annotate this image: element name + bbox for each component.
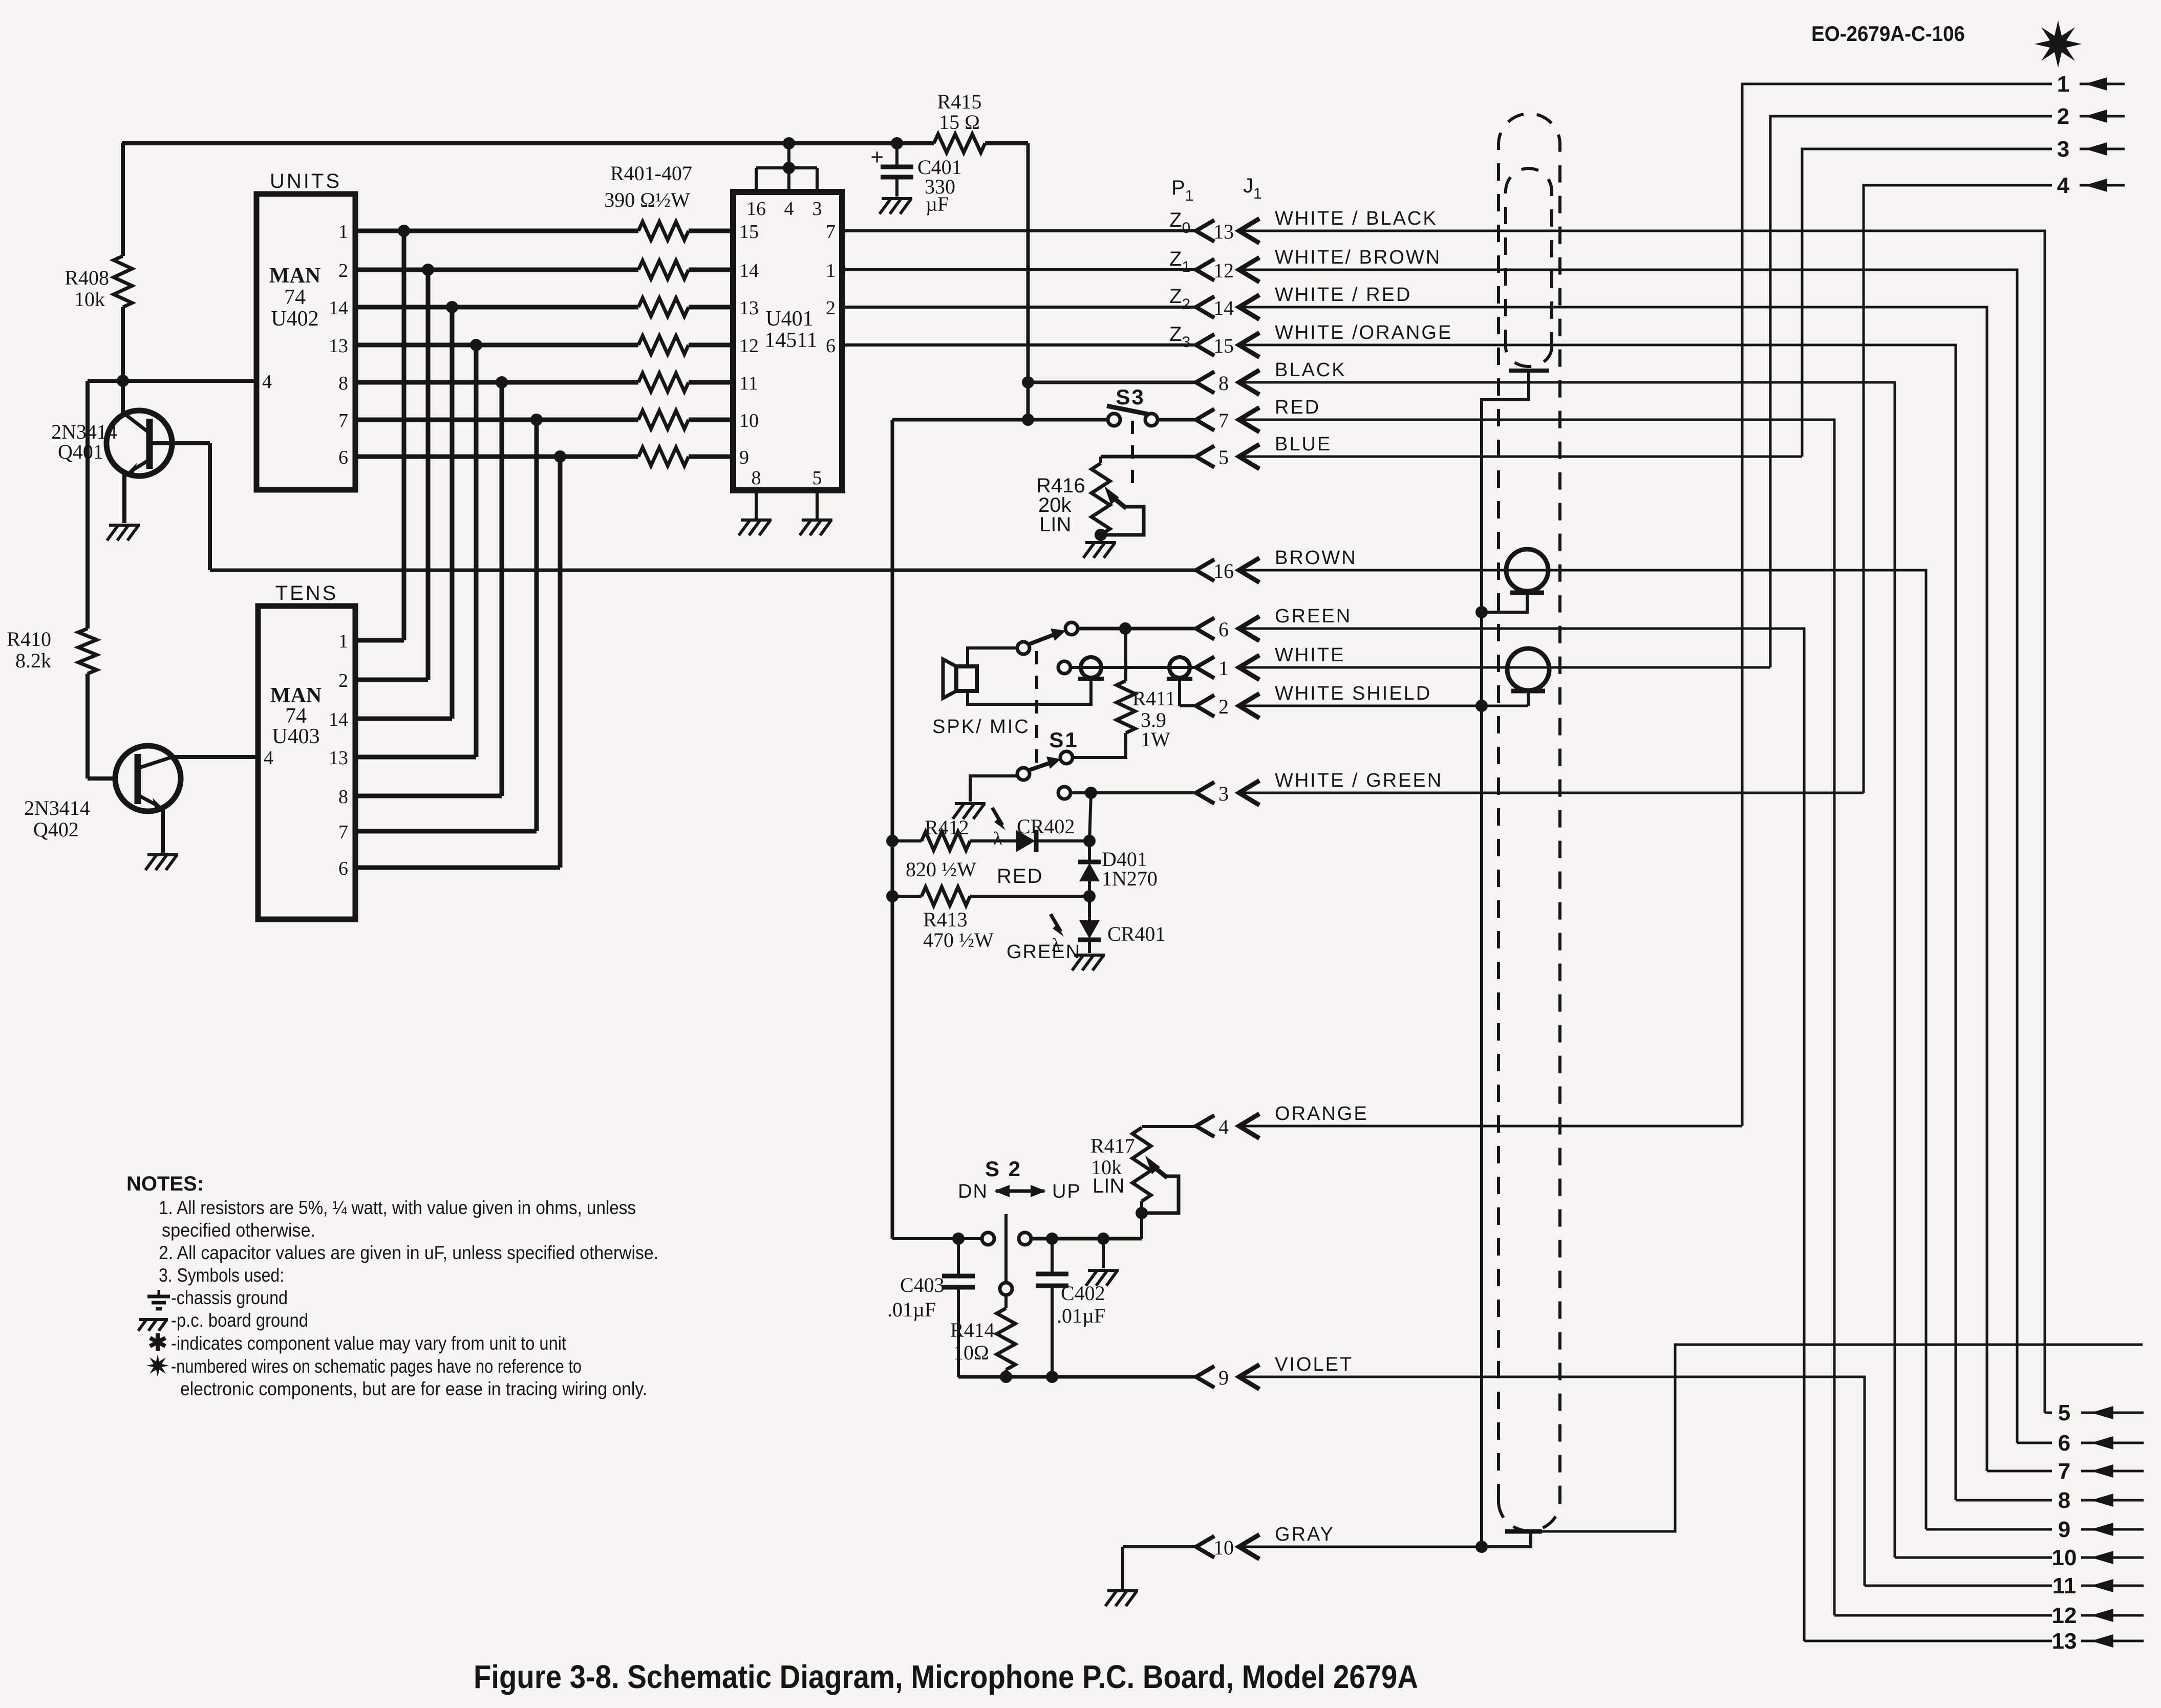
wire segment rows a-g UNITS to U401 bbox=[355, 229, 638, 233]
svg-text:14: 14 bbox=[739, 260, 759, 282]
resistor R404 bbox=[638, 336, 689, 354]
svg-text:5: 5 bbox=[1218, 446, 1229, 469]
connector ring WHITE right bbox=[1169, 657, 1190, 678]
node R417 wiper-bottom tie bbox=[1136, 1207, 1148, 1219]
node stair junctions bbox=[398, 225, 410, 237]
resistor R401 bbox=[638, 222, 689, 240]
svg-text:2. All capacitor values are gi: 2. All capacitor values are given in uF,… bbox=[159, 1242, 658, 1263]
svg-text:WHITE / GREEN: WHITE / GREEN bbox=[1275, 770, 1443, 791]
wire cable end lead to right edge bbox=[1542, 1345, 2143, 1531]
ground GRAY P-side bbox=[1107, 1589, 1138, 1592]
svg-text:WHITE/ BROWN: WHITE/ BROWN bbox=[1275, 247, 1441, 268]
wire S1 lower left to ground bbox=[970, 776, 1018, 802]
svg-text:Q402: Q402 bbox=[33, 818, 79, 841]
svg-text:2: 2 bbox=[338, 260, 348, 282]
IC U401 14511 bbox=[733, 192, 842, 490]
svg-text:R401-407: R401-407 bbox=[610, 162, 692, 185]
wire WHITE SHIELD row right bbox=[1239, 705, 1528, 707]
resistor R414 10 ohm bbox=[997, 1308, 1015, 1370]
svg-text:15: 15 bbox=[1213, 334, 1234, 357]
wire U401 top supply bracket bbox=[755, 168, 758, 192]
node J1 pin 13 (WHITE / BLACK) bbox=[1196, 220, 1214, 242]
node J1 pin 14 (WHITE / RED) bbox=[1196, 296, 1214, 318]
svg-text:Q401: Q401 bbox=[58, 440, 103, 463]
svg-text:820 ½W: 820 ½W bbox=[906, 858, 976, 881]
svg-text:9: 9 bbox=[1218, 1366, 1229, 1389]
svg-text:1: 1 bbox=[338, 631, 348, 652]
wire harness 13 bottom row bbox=[1804, 1640, 2052, 1642]
node J1 pin 5 (BLUE) bbox=[1196, 446, 1214, 467]
svg-text:3. Symbols used:: 3. Symbols used: bbox=[159, 1265, 284, 1286]
svg-text:C402: C402 bbox=[1061, 1282, 1105, 1305]
resistor R415 bbox=[934, 134, 985, 153]
svg-text:13: 13 bbox=[2052, 1629, 2077, 1654]
svg-text:8.2k: 8.2k bbox=[15, 649, 51, 672]
wire harness 2 (to WHITE) bbox=[1770, 116, 2052, 667]
resistor R405 bbox=[638, 373, 689, 392]
svg-text:13: 13 bbox=[329, 335, 348, 357]
svg-text:6: 6 bbox=[1218, 618, 1229, 641]
svg-text:.01µF: .01µF bbox=[887, 1298, 936, 1321]
resistor R403 bbox=[638, 298, 689, 316]
svg-text:LIN: LIN bbox=[1093, 1175, 1124, 1197]
svg-text:15 Ω: 15 Ω bbox=[939, 111, 980, 134]
node R412 left junction bbox=[886, 835, 898, 847]
svg-text:4: 4 bbox=[2057, 173, 2070, 198]
svg-text:12: 12 bbox=[739, 335, 759, 357]
svg-text:390 Ω½W: 390 Ω½W bbox=[604, 188, 690, 211]
wire harness 9 bottom row bbox=[1926, 1528, 2052, 1531]
svg-text:14: 14 bbox=[329, 297, 348, 319]
node shield / ring BROWN tail bbox=[1475, 606, 1488, 618]
svg-text:VIOLET: VIOLET bbox=[1275, 1354, 1353, 1375]
svg-text:4: 4 bbox=[1218, 1115, 1229, 1138]
svg-text:ORANGE: ORANGE bbox=[1275, 1103, 1368, 1125]
wire RED row right to harness 12 bbox=[1239, 420, 1834, 1615]
svg-text:4: 4 bbox=[784, 198, 794, 220]
svg-text:11: 11 bbox=[739, 373, 758, 394]
node J1 pin 3 (WHITE / GREEN) bbox=[1196, 782, 1214, 804]
svg-text:10k: 10k bbox=[74, 288, 105, 311]
svg-text:15: 15 bbox=[739, 221, 759, 243]
svg-text:U402: U402 bbox=[271, 307, 318, 331]
svg-text:10: 10 bbox=[1213, 1536, 1234, 1559]
resistor R413 470 1/2W bbox=[922, 887, 970, 905]
node J1 pin 10 (GRAY) bbox=[1196, 1536, 1214, 1558]
node rail-RED junction bbox=[1022, 414, 1034, 426]
svg-text:DN: DN bbox=[958, 1181, 988, 1202]
node shield / GRAY row bbox=[1475, 1541, 1488, 1553]
svg-text:-p.c. board ground: -p.c. board ground bbox=[171, 1310, 308, 1331]
node J1 pin 1 (WHITE) bbox=[1196, 657, 1214, 678]
svg-text:-numbered wires on schematic p: -numbered wires on schematic pages have … bbox=[171, 1356, 582, 1377]
wire GRAY to cable end bbox=[1483, 1531, 1531, 1547]
wire speaker top to S1 bbox=[968, 648, 1017, 666]
node R414 bottom bbox=[1000, 1371, 1012, 1383]
node R416 wiper-bottom tie bbox=[1095, 529, 1107, 541]
svg-text:specified otherwise.: specified otherwise. bbox=[162, 1220, 315, 1241]
node CR402/D401 junction bbox=[1083, 835, 1096, 847]
wire BROWN row left bbox=[210, 569, 1196, 572]
svg-text:3: 3 bbox=[1218, 782, 1229, 805]
node shield / WHITE SHIELD row bbox=[1475, 700, 1488, 712]
chassis ground symbol (note) bbox=[147, 1295, 170, 1299]
wire RED row feed (S3 branch down-left) bbox=[891, 420, 894, 1239]
node J1 pin 12 (WHITE/ BROWN) bbox=[1196, 259, 1214, 280]
wire BLACK row right to harness 10 bbox=[1239, 382, 1895, 1558]
wire WHITE SHIELD row left bbox=[1180, 704, 1196, 707]
svg-text:WHITE: WHITE bbox=[1275, 644, 1345, 666]
svg-text:R414: R414 bbox=[950, 1318, 995, 1342]
svg-text:S 2: S 2 bbox=[985, 1157, 1022, 1181]
node bracket junction bbox=[783, 162, 795, 174]
node C403 top bbox=[952, 1233, 965, 1245]
ground Q401 emitter bbox=[109, 524, 140, 527]
resistor R410 bbox=[78, 629, 97, 674]
wire harness 12 bottom row bbox=[1834, 1614, 2052, 1617]
svg-text:RED: RED bbox=[1275, 397, 1320, 418]
wire Z1 row right to harness 6 bbox=[1239, 270, 2017, 1443]
svg-text:TENS: TENS bbox=[275, 582, 338, 604]
svg-text:R410: R410 bbox=[7, 628, 51, 651]
svg-text:R408: R408 bbox=[65, 266, 109, 289]
wire BLACK row left bbox=[1028, 381, 1196, 384]
svg-text:11: 11 bbox=[2052, 1573, 2077, 1598]
svg-text:8: 8 bbox=[752, 467, 761, 489]
svg-text:9: 9 bbox=[2058, 1517, 2070, 1542]
svg-text:1: 1 bbox=[826, 260, 836, 282]
svg-text:electronic components, but are: electronic components, but are for ease … bbox=[180, 1378, 647, 1399]
connector ring WHITE in-cable bbox=[1507, 648, 1549, 690]
wire Q402 collector to TENS pin4 bbox=[172, 755, 258, 759]
node S2 ground junction bbox=[1097, 1233, 1109, 1245]
node rail-BLACK junction bbox=[1022, 376, 1034, 388]
svg-text:-chassis ground: -chassis ground bbox=[171, 1287, 288, 1308]
svg-text:U401: U401 bbox=[765, 307, 813, 331]
cable jacket outer dashed capsule bbox=[1499, 114, 1560, 1531]
switch S1 upper pole bbox=[1017, 642, 1030, 654]
wire TENS stair segments bbox=[355, 638, 404, 643]
svg-text:6: 6 bbox=[826, 335, 836, 357]
wire U401 pin5 ground stub bbox=[816, 490, 819, 519]
node J1 pin 4 (ORANGE) bbox=[1196, 1115, 1214, 1137]
wire WHITE/GREEN drop to LED chain bbox=[1089, 793, 1091, 841]
svg-text:SPK/ MIC: SPK/ MIC bbox=[932, 716, 1030, 738]
svg-text:12: 12 bbox=[2052, 1603, 2077, 1628]
wire BLUE row left (R416 top) bbox=[1101, 455, 1196, 459]
svg-text:1: 1 bbox=[1218, 657, 1229, 680]
resistor R407 bbox=[638, 447, 689, 466]
svg-text:BLUE: BLUE bbox=[1275, 434, 1332, 455]
svg-text:10: 10 bbox=[739, 410, 759, 431]
wire WHITE row right to harness 2 bbox=[1239, 666, 1770, 669]
svg-text:16: 16 bbox=[746, 198, 766, 220]
node J1 pin 15 (WHITE /ORANGE) bbox=[1196, 334, 1214, 356]
wire UNITS pin4 row bbox=[88, 379, 256, 383]
svg-text:7: 7 bbox=[338, 410, 348, 431]
LED CR402 (RED) bbox=[1016, 830, 1035, 852]
svg-text:10Ω: 10Ω bbox=[953, 1341, 989, 1364]
svg-text:S1: S1 bbox=[1049, 728, 1078, 752]
svg-text:.01µF: .01µF bbox=[1057, 1304, 1105, 1327]
node R413 left junction bbox=[886, 890, 898, 902]
svg-text:GREEN: GREEN bbox=[1275, 606, 1352, 627]
svg-text:4: 4 bbox=[262, 371, 272, 393]
svg-text:16: 16 bbox=[1213, 559, 1234, 582]
svg-text:R412: R412 bbox=[925, 816, 969, 839]
ground Q402 emitter bbox=[147, 853, 178, 856]
wire RED row segment through S3 bbox=[892, 418, 1108, 422]
svg-text:S3: S3 bbox=[1116, 385, 1145, 409]
resistor R412 820 1/2W bbox=[922, 832, 970, 850]
resistor R406 bbox=[638, 410, 689, 429]
svg-text:5: 5 bbox=[2058, 1400, 2070, 1425]
wire left drop to R410 bbox=[85, 381, 90, 629]
wire harness 5 bottom row bbox=[2045, 1412, 2052, 1414]
svg-text:R411: R411 bbox=[1132, 687, 1175, 710]
wire Z0 row right to harness 5 bbox=[1239, 231, 2045, 1413]
svg-text:4: 4 bbox=[264, 747, 273, 769]
svg-text:7: 7 bbox=[826, 221, 836, 243]
capacitor C403 .01uF bbox=[957, 1239, 960, 1275]
svg-text:13: 13 bbox=[739, 297, 759, 319]
svg-text:14: 14 bbox=[329, 709, 348, 730]
svg-text:WHITE / BLACK: WHITE / BLACK bbox=[1275, 208, 1438, 229]
ground U401 pin5 bbox=[802, 518, 832, 522]
connector ring BROWN in-cable bbox=[1506, 549, 1548, 591]
node C402 bottom bbox=[1046, 1371, 1058, 1383]
capacitor C402 .01uF bbox=[1051, 1239, 1054, 1273]
LED CR401 (GREEN) bbox=[1088, 896, 1091, 920]
svg-text:2: 2 bbox=[338, 670, 348, 691]
svg-text:6: 6 bbox=[2058, 1431, 2070, 1456]
svg-text:14: 14 bbox=[1213, 296, 1234, 319]
svg-text:1W: 1W bbox=[1141, 728, 1170, 751]
wire BLUE row right to harness 3 bbox=[1239, 456, 1802, 458]
wire shield drain bbox=[1482, 371, 1529, 1547]
wire GREEN row left bbox=[1077, 627, 1196, 631]
svg-text:MAN: MAN bbox=[269, 264, 320, 288]
wire WHITE/GREEN row left bbox=[1058, 787, 1071, 799]
svg-text:1. All resistors are 5%, ¼ wat: 1. All resistors are 5%, ¼ watt, with va… bbox=[159, 1197, 636, 1218]
star symbol (wire tracing note) bbox=[2035, 20, 2082, 68]
svg-text:BLACK: BLACK bbox=[1275, 359, 1346, 381]
svg-text:13: 13 bbox=[329, 747, 348, 769]
wire harness 1 (to ORANGE) bbox=[1742, 84, 2052, 1126]
wire Z2 row right to harness 7 bbox=[1239, 307, 1987, 1471]
svg-text:+: + bbox=[870, 144, 884, 170]
svg-text:3: 3 bbox=[812, 198, 822, 220]
resistor R411 3.9 1W bbox=[1124, 629, 1127, 681]
svg-text:GRAY: GRAY bbox=[1275, 1524, 1335, 1545]
connector ring WHITE left bbox=[1081, 657, 1101, 678]
wire GRAY row left + ground bbox=[1123, 1545, 1196, 1548]
ground CR401 bbox=[1074, 954, 1105, 957]
ground R416 bbox=[1085, 541, 1116, 544]
wire rail right drop to BLACK/RED rows bbox=[1026, 143, 1030, 420]
ground S1 bbox=[955, 802, 986, 805]
svg-text:9: 9 bbox=[739, 447, 749, 468]
node J1 pin 6 (GREEN) bbox=[1196, 618, 1214, 639]
node C402 top bbox=[1046, 1233, 1058, 1245]
svg-text:7: 7 bbox=[338, 821, 348, 843]
svg-text:8: 8 bbox=[1218, 372, 1229, 395]
svg-text:Figure 3-8. Schematic Diagram,: Figure 3-8. Schematic Diagram, Microphon… bbox=[474, 1658, 1418, 1695]
svg-text:NOTES:: NOTES: bbox=[126, 1173, 204, 1195]
svg-text:µF: µF bbox=[926, 192, 949, 215]
wire Z3 row right to harness 8 bbox=[1239, 345, 1956, 1500]
svg-text:1N270: 1N270 bbox=[1102, 867, 1158, 890]
node GREEN R411 junction bbox=[1119, 622, 1131, 635]
svg-text:8: 8 bbox=[338, 786, 348, 808]
wire GREEN row right to harness 13 bbox=[1239, 629, 1804, 1641]
svg-text:WHITE SHIELD: WHITE SHIELD bbox=[1275, 683, 1431, 704]
solid star symbol (note) bbox=[146, 1354, 169, 1377]
wire WHITE row left bbox=[1058, 661, 1071, 674]
svg-text:BROWN: BROWN bbox=[1275, 547, 1357, 569]
ground U401 pin8 bbox=[741, 518, 772, 522]
node J1 pin 8 (BLACK) bbox=[1196, 372, 1214, 393]
svg-text:13: 13 bbox=[1213, 220, 1234, 243]
node J1 pin 9 (VIOLET) bbox=[1196, 1366, 1214, 1388]
display TENS MAN74 U403 bbox=[258, 606, 355, 919]
wire S2 row bbox=[892, 1237, 982, 1240]
svg-text:470 ½W: 470 ½W bbox=[923, 928, 994, 952]
resistor R402 bbox=[638, 261, 689, 279]
p.c. board ground symbol (note) bbox=[139, 1318, 168, 1321]
svg-text:6: 6 bbox=[338, 858, 348, 879]
svg-text:R413: R413 bbox=[923, 908, 968, 931]
svg-text:CR401: CR401 bbox=[1107, 922, 1165, 945]
node J1 pin 16 (BROWN) bbox=[1196, 559, 1214, 581]
svg-text:R415: R415 bbox=[937, 90, 982, 113]
svg-text:1: 1 bbox=[2057, 72, 2069, 97]
svg-text:3: 3 bbox=[2057, 137, 2069, 162]
svg-text:5: 5 bbox=[812, 467, 822, 489]
wire harness 11 bottom row bbox=[1865, 1585, 2052, 1587]
svg-text:R417: R417 bbox=[1090, 1134, 1135, 1157]
svg-text:8: 8 bbox=[2058, 1488, 2070, 1513]
potentiometer R416 20k LIN bbox=[1099, 457, 1102, 463]
transistor Q401 2N3414 bbox=[106, 410, 172, 476]
wire WHITE/GREEN row right to harness 4 bbox=[1239, 792, 1864, 794]
svg-text:UP: UP bbox=[1052, 1181, 1081, 1202]
svg-text:GREEN: GREEN bbox=[1007, 941, 1081, 963]
diode D401 1N270 bbox=[1088, 841, 1091, 861]
resistor R408 bbox=[121, 143, 125, 256]
cable shield termination bar bbox=[1509, 369, 1549, 373]
wire speaker bottom to ring tail bbox=[968, 686, 1091, 704]
node rail pin4 junction bbox=[783, 137, 795, 149]
ground C401 bbox=[882, 197, 912, 200]
node R408 base tap bbox=[117, 375, 129, 387]
svg-text:12: 12 bbox=[1213, 259, 1234, 282]
svg-text:CR402: CR402 bbox=[1017, 815, 1075, 838]
capacitor C401 bbox=[895, 143, 898, 166]
wire harness 3 (to BLUE) bbox=[1802, 149, 2052, 457]
display UNITS MAN74 U402 bbox=[256, 194, 355, 490]
asterisk symbol (note) bbox=[150, 1338, 165, 1346]
wire GRAY row right bbox=[1239, 1546, 1482, 1548]
wire harness 8 bottom row bbox=[1956, 1499, 2052, 1502]
svg-text:2: 2 bbox=[2057, 104, 2069, 129]
svg-text:C403: C403 bbox=[900, 1273, 945, 1296]
svg-text:2: 2 bbox=[1218, 695, 1229, 718]
potentiometer R417 10k LIN bbox=[1132, 1128, 1151, 1201]
svg-text:WHITE / RED: WHITE / RED bbox=[1275, 284, 1411, 306]
svg-text:WHITE /ORANGE: WHITE /ORANGE bbox=[1275, 322, 1452, 343]
transistor Q402 2N3414 bbox=[88, 776, 115, 781]
svg-text:10: 10 bbox=[2052, 1545, 2077, 1570]
wire harness 7 bottom row bbox=[1987, 1470, 2052, 1473]
svg-text:2: 2 bbox=[826, 297, 836, 319]
svg-text:1: 1 bbox=[338, 221, 348, 243]
svg-text:8: 8 bbox=[338, 373, 348, 394]
svg-text:7: 7 bbox=[2058, 1459, 2070, 1484]
wire VIOLET bottom row bbox=[958, 1375, 1196, 1379]
ground S2 row bbox=[1102, 1239, 1105, 1268]
wire U401 pin8 ground stub bbox=[755, 490, 758, 519]
wire harness 4 (to WHITE/GREEN) bbox=[1864, 185, 2052, 793]
svg-text:74: 74 bbox=[284, 286, 306, 309]
svg-text:2N3414: 2N3414 bbox=[24, 796, 90, 819]
svg-text:λ: λ bbox=[993, 828, 1002, 849]
speaker SPK/MIC bbox=[956, 666, 977, 691]
svg-text:-indicates component value may: -indicates component value may vary from… bbox=[171, 1333, 567, 1354]
svg-text:RED: RED bbox=[997, 865, 1043, 888]
wire VIOLET row right to harness 11 bbox=[1239, 1377, 1865, 1586]
wire ORANGE row right to harness 1 bbox=[1239, 1125, 1742, 1128]
wire +V top rail bbox=[122, 141, 934, 145]
cable end termination bar bbox=[1505, 1529, 1542, 1534]
svg-text:6: 6 bbox=[338, 447, 348, 468]
wire harness 10 bottom row bbox=[1895, 1556, 2052, 1559]
node WHITE/GREEN to LED chain bbox=[1085, 787, 1097, 799]
svg-text:EO-2679A-C-106: EO-2679A-C-106 bbox=[1811, 21, 1965, 46]
node D401/CR401 junction bbox=[1083, 890, 1096, 902]
wire Q401 base to BROWN row bbox=[208, 443, 212, 570]
node J1 pin 7 (RED) bbox=[1196, 409, 1214, 430]
svg-text:UNITS: UNITS bbox=[270, 170, 341, 192]
wire harness 6 bottom row bbox=[2017, 1442, 2052, 1444]
cable inner shield dashed capsule bbox=[1506, 168, 1552, 366]
svg-text:7: 7 bbox=[1218, 409, 1229, 432]
svg-text:U403: U403 bbox=[272, 725, 319, 748]
wire BROWN row right to harness 9 bbox=[1239, 570, 1926, 1529]
svg-text:14511: 14511 bbox=[764, 329, 817, 352]
svg-text:LIN: LIN bbox=[1039, 513, 1071, 536]
node J1 pin 2 (WHITE SHIELD) bbox=[1196, 695, 1214, 717]
